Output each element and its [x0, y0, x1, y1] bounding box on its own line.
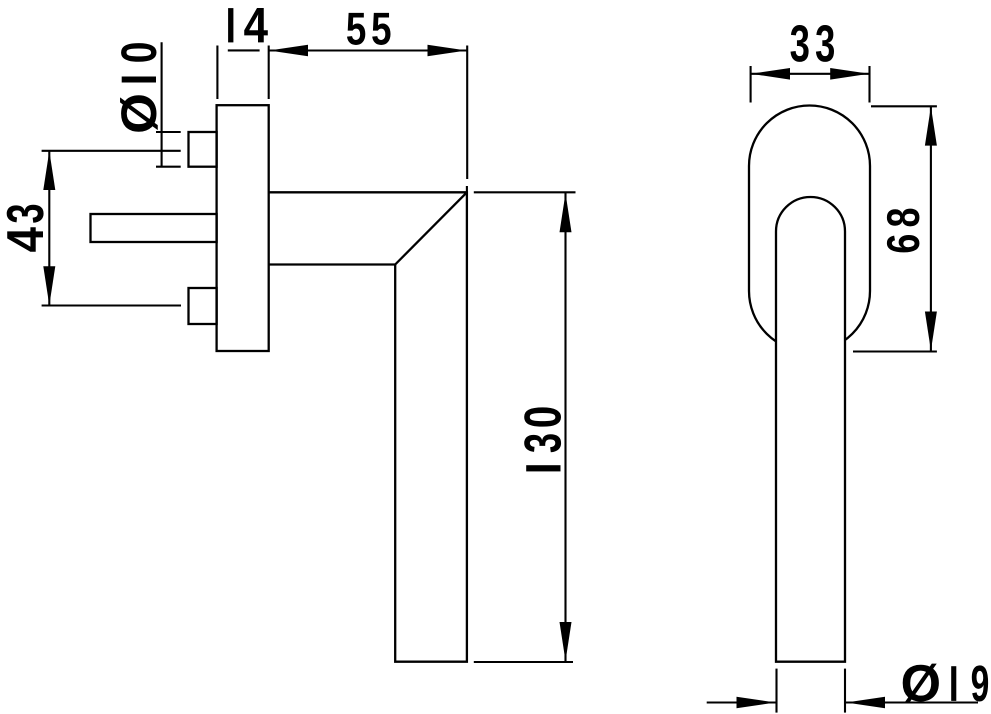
dim diameter19 label digit 1 (bar) [951, 666, 956, 701]
dim 68 extension line bottom [853, 350, 937, 352]
dim 43 label digit 3 (rotated) [7, 205, 44, 223]
dim 33 label digit 3 [791, 25, 809, 62]
dim 55 label digit 5 [347, 13, 365, 45]
dim 130 extension line top [474, 191, 576, 193]
dim diameter19 label digit 9 [972, 665, 988, 701]
dim 55 extension line right [466, 46, 468, 180]
dim 55 arrow left [269, 45, 308, 57]
dim diameter19 arrow pointing left [846, 697, 885, 709]
dim 68 arrow down [925, 312, 937, 351]
dim 68 arrow up [925, 107, 937, 146]
dim 43 arrow up [43, 151, 55, 190]
dim diameter19 leader right [846, 701, 978, 703]
dim 55 extension line stub at corner [466, 186, 468, 192]
spindle square shaft (side view) [91, 214, 217, 242]
dim 43 extension line top [42, 150, 181, 152]
dim diameter10 label digit 0 (rotated) [121, 43, 156, 62]
dim 14 label digit 4 [244, 8, 268, 42]
rosette oval (front view) [749, 106, 870, 352]
dim 130 dimension line [564, 193, 566, 661]
dim diameter10 tick top [156, 131, 181, 133]
dim 43 dimension line [48, 151, 50, 306]
dim 68 label digit 6 (rotated) [887, 235, 920, 252]
dim 130 label digit 3 (rotated) [524, 434, 561, 452]
dim 68 dimension line [930, 106, 932, 350]
dim 43 arrow down [43, 266, 55, 305]
handle grip tube (front view) [776, 197, 845, 662]
dim 33 label digit 3 [816, 25, 834, 62]
dim diameter10 tick bottom [156, 166, 181, 168]
dim 14 extension line left [216, 46, 218, 100]
dim 55 arrow right [428, 45, 467, 57]
dim 130 arrow down [560, 622, 572, 661]
dim 14 dimension line [228, 49, 260, 51]
dim diameter10 label diameter symbol (rotated) [120, 95, 158, 132]
rosette plate (side view) [217, 105, 269, 351]
dim 68 extension line top [871, 105, 937, 107]
dim diameter19 leader left [707, 701, 776, 703]
handle miter chamfer edge [395, 192, 467, 264]
handle lever outline (side view) [269, 192, 467, 661]
dim 33 arrow left [751, 68, 790, 80]
dim 14 extension line right [268, 46, 270, 100]
dim 55 dimension line [269, 49, 467, 51]
dim diameter19 extension line right [844, 669, 846, 713]
dim diameter19 extension line left [775, 669, 777, 713]
dim 43 label digit 4 (rotated) [7, 227, 43, 252]
dim 43 extension line bottom [42, 304, 181, 306]
dim diameter10 label digit 1 (rotated bar) [122, 77, 156, 83]
dim 130 extension line bottom [474, 661, 573, 663]
fixing bolt top (side view) [189, 132, 217, 167]
dim 33 extension line right [868, 66, 870, 103]
dim 130 label digit 0 (rotated) [524, 407, 561, 426]
dim 68 label digit 8 (rotated) [887, 209, 920, 227]
dim 55 label digit 5 [372, 13, 390, 45]
dim 33 arrow right [830, 68, 869, 80]
fixing bolt bottom (side view) [189, 288, 217, 324]
dim 14 label digit 1 [228, 8, 233, 42]
dim 33 extension line left [750, 66, 752, 103]
dim diameter10 dimension line [161, 42, 163, 166]
dim diameter19 arrow pointing right [737, 697, 776, 709]
dim 130 arrow up [560, 193, 572, 232]
dim 33 dimension line [751, 73, 870, 75]
dim diameter19 label diameter symbol [903, 664, 939, 703]
dim 130 label digit 1 (rotated bar) [526, 465, 560, 471]
